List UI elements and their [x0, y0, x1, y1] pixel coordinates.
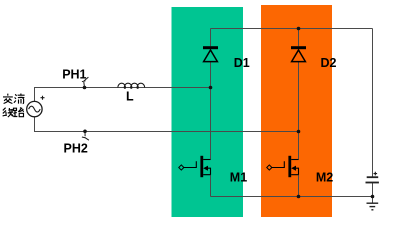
- svg-text:D2: D2: [321, 56, 337, 70]
- svg-text:PH2: PH2: [64, 141, 88, 155]
- svg-text:PH1: PH1: [62, 67, 86, 81]
- svg-text:M2: M2: [316, 171, 333, 185]
- svg-text:M1: M1: [230, 171, 247, 185]
- svg-text:D1: D1: [234, 56, 250, 70]
- svg-text:L: L: [126, 89, 134, 103]
